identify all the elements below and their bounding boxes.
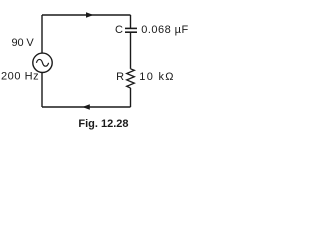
wire left lower <box>41 73 43 107</box>
ac source sine wave <box>36 59 48 66</box>
wire right upper <box>130 15 132 28</box>
current arrow top (rightward) <box>86 12 94 18</box>
svg-text:10 kΩ: 10 kΩ <box>139 71 173 83</box>
capacitor C plates <box>125 27 137 29</box>
svg-text:90 V: 90 V <box>12 37 35 49</box>
svg-text:C: C <box>115 24 123 36</box>
svg-text:0.068 µF: 0.068 µF <box>141 24 188 36</box>
wire bottom <box>42 106 131 108</box>
wire right middle <box>130 32 132 69</box>
wire right lower <box>130 88 132 107</box>
svg-text:200 Hz: 200 Hz <box>1 70 39 82</box>
svg-text:Fig. 12.28: Fig. 12.28 <box>78 118 128 130</box>
wire left upper <box>41 15 43 53</box>
ac source circle <box>33 53 52 72</box>
current arrow bottom (leftward) <box>82 104 90 110</box>
wire top <box>42 14 131 16</box>
svg-text:R: R <box>116 71 124 83</box>
resistor R zigzag <box>127 69 135 88</box>
